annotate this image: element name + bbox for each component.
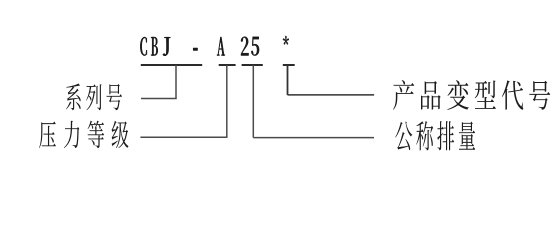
label 系列号 (series number) <box>66 84 122 111</box>
horizontal leader to label 公称排量 <box>253 137 374 139</box>
horizontal leader to label 产品变型代号 <box>288 94 375 96</box>
underline under CBJ- <box>141 64 202 66</box>
model code asterisk <box>283 36 289 45</box>
label 公称排量 (nominal displacement) <box>395 121 475 150</box>
model code letter J <box>163 37 170 56</box>
model code digit 5 <box>251 37 259 56</box>
vertical leader from CBJ underline <box>175 65 177 99</box>
model code hyphen <box>193 48 197 51</box>
vertical leader from 25 underline <box>252 65 254 138</box>
model code letter A <box>217 37 225 56</box>
underline under * <box>283 64 295 66</box>
model designation diagram <box>0 0 552 192</box>
vertical leader from * underline <box>287 65 289 95</box>
underline under 25 <box>242 64 263 66</box>
model code digit 2 <box>241 37 249 56</box>
label 产品变型代号 (product variant code) <box>393 80 550 110</box>
model code letter B <box>151 37 158 55</box>
model code letter C <box>140 37 147 56</box>
label 压力等级 (pressure grade) <box>39 121 128 149</box>
horizontal leader to label 压力等级 <box>140 136 227 138</box>
horizontal leader to label 系列号 <box>141 98 177 100</box>
underline under A <box>219 64 236 66</box>
vertical leader from A underline <box>226 65 228 137</box>
